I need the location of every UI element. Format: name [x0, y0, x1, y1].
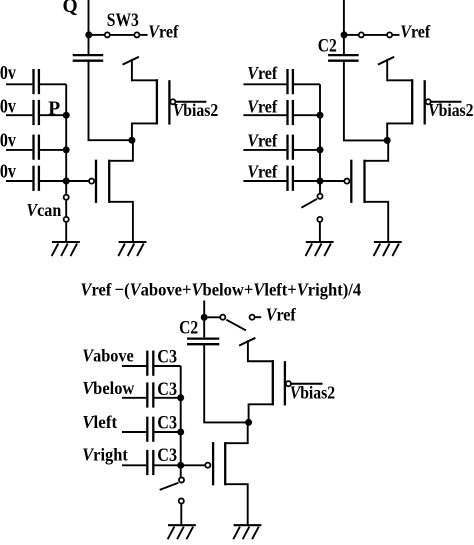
transistor M5 source lever: [239, 338, 255, 346]
switch contact 2 (bottom): [250, 315, 255, 320]
svg-text:Vref: Vref: [247, 161, 277, 181]
wire C3 right to bus: [155, 464, 181, 466]
capacitor C3 (below): [147, 382, 153, 407]
transistor M1 source lever: [123, 57, 139, 65]
switch Vcan contact 1: [64, 195, 69, 200]
capacitor C2 label (bottom): [179, 317, 198, 338]
svg-text:Vref: Vref: [148, 22, 178, 42]
wire Vleft to capacitor C3: [122, 431, 146, 433]
svg-text:Vleft: Vleft: [82, 411, 117, 432]
ground under bottom bus switch: [168, 525, 196, 539]
transistor M3 gate contact circle: [426, 99, 431, 104]
wire Vref input 4 to capacitor: [243, 180, 286, 182]
junction dot bus/cap3 (right): [317, 146, 324, 153]
node dot M3 drain / C2 / M4 drain: [384, 137, 391, 144]
input 0v label 3: [0, 129, 17, 151]
transistor M5 gate bar: [284, 361, 286, 405]
svg-text:C3: C3: [157, 378, 177, 400]
capacitor input 2 (left bank): [34, 100, 39, 125]
transistor M1 body: [132, 79, 157, 141]
input 0v label 2: [0, 95, 17, 117]
wire capacitor 1 to bus corner (right): [294, 83, 320, 85]
switch contact 1 (top right): [359, 32, 364, 37]
switch contact 2 (top right): [387, 32, 392, 37]
switch Vcan contact 2: [64, 217, 69, 222]
svg-text:Vref: Vref: [400, 22, 430, 42]
wire bus to M6 gate: [181, 464, 205, 466]
svg-text:Vref: Vref: [247, 131, 277, 151]
switch contact open top (right bus): [317, 194, 322, 199]
wire C2 node to switch contact: [347, 34, 358, 36]
svg-text:Vref: Vref: [266, 305, 296, 325]
junction dot bus/C3 left: [177, 429, 184, 436]
capacitor C3 (left): [147, 417, 153, 442]
input Vabove label: [82, 346, 134, 366]
wire Vright to capacitor C3: [122, 464, 146, 466]
wire switch closed blade (top right): [365, 34, 387, 36]
switch SW3 label: [107, 9, 139, 30]
input Vref label 1: [247, 63, 277, 83]
capacitor C2 plates (top right): [328, 55, 359, 61]
wire from Q node down to SW3 junction and capacitor: [88, 0, 90, 56]
capacitor input 1 (left bank): [34, 69, 39, 94]
svg-text:P: P: [48, 98, 60, 119]
ground under Vcan switch: [52, 242, 80, 256]
capacitor Vref input 3 (right bank): [288, 135, 293, 160]
switch contact open top (bottom bus): [179, 477, 184, 482]
net Vcan label: [26, 200, 61, 220]
wire switch to Vref (top right): [393, 34, 400, 36]
svg-text:C2: C2: [179, 317, 198, 338]
capacitor C3 (right): [147, 450, 153, 475]
svg-text:Vbias2: Vbias2: [290, 382, 335, 402]
transistor M4 gate bar: [350, 160, 352, 203]
wire capacitor 2 to bus: [40, 114, 66, 116]
wire SW3 closed blade: [111, 34, 134, 36]
svg-text:Vcan: Vcan: [26, 200, 61, 220]
junction dot bus/C3 right: [177, 462, 184, 469]
transistor M1 gate contact circle: [170, 99, 175, 104]
ground under M6: [233, 525, 261, 539]
capacitor C3 label (left): [157, 411, 177, 433]
wire Vabove to capacitor C3: [122, 365, 146, 367]
formula label Vref-(Vabove+Vbelow+Vleft+Vright)/4: [80, 279, 361, 300]
wire capacitor 1 to bus corner: [40, 83, 66, 85]
capacitor C3 label (above): [157, 345, 177, 367]
wire switch to ground (bottom bus): [180, 504, 182, 524]
svg-text:C3: C3: [157, 411, 177, 433]
wire node to open switch contact: [208, 316, 220, 318]
net Vref label (top right): [400, 22, 430, 42]
svg-text:C3: C3: [157, 444, 177, 466]
wire C3 left to bus: [155, 431, 181, 433]
wire input 3 to capacitor: [6, 149, 32, 151]
wire switch stub to Vref (bottom): [255, 316, 261, 318]
node dot M5 drain / C2 / M6 drain (bottom): [245, 419, 252, 426]
transistor M5 body: [248, 360, 273, 423]
junction dot bus/cap2 (node P): [63, 112, 70, 119]
switch contact open bottom (bottom bus): [179, 498, 184, 503]
wire capacitor bottom to drain node: [89, 62, 131, 140]
svg-text:0v: 0v: [0, 129, 17, 151]
junction dot bus/cap4: [63, 178, 70, 185]
capacitor C3 (above): [147, 351, 153, 376]
wire capacitor 2 to bus (right): [294, 114, 320, 116]
junction dot bus/cap2 (right): [317, 112, 324, 119]
input Vref label 2: [247, 97, 277, 117]
svg-text:Vbias2: Vbias2: [428, 100, 473, 120]
wire Vbelow to capacitor C3: [122, 397, 146, 399]
transistor M2 channel bar: [108, 160, 110, 203]
wire M5 source stub: [247, 340, 249, 362]
capacitor Vref input 4 (right bank): [288, 166, 293, 191]
svg-text:0v: 0v: [0, 95, 17, 117]
capacitor C3 label (below): [157, 378, 177, 400]
svg-text:Vright: Vright: [82, 444, 128, 465]
transistor M4 channel bar: [363, 160, 365, 203]
transistor M6 gate bar: [212, 442, 214, 485]
switch open lever (right bus): [301, 199, 317, 208]
transistor M3 source lever: [378, 57, 394, 65]
switch contact open bottom (right bus): [317, 217, 322, 222]
wire input 2 to capacitor: [6, 114, 32, 116]
capacitor C2 plates (bottom): [187, 339, 219, 345]
wire Vref input 3 to capacitor: [243, 149, 286, 151]
svg-text:Q: Q: [63, 0, 78, 17]
svg-text:Vref: Vref: [247, 63, 277, 83]
input Vref label 4: [247, 161, 277, 181]
net Vbias2 label (bottom circuit): [290, 382, 335, 402]
svg-text:C2: C2: [318, 35, 337, 56]
wire formula node down to C2: [203, 301, 205, 338]
wire M2 drain stub: [109, 140, 133, 161]
wire Vref input 1 to capacitor: [243, 83, 286, 85]
transistor M5 gate contact circle: [286, 381, 291, 386]
input 0v label 4: [0, 160, 17, 182]
capacitor input 4 (left bank): [34, 166, 39, 191]
switch open lever (bottom top): [226, 320, 246, 331]
wire summing bus (bottom): [180, 366, 182, 478]
switch contact 1 (bottom): [220, 315, 225, 320]
junction dot at bottom C2 top node: [201, 314, 208, 321]
net Vbias2 label (top left circuit): [173, 100, 218, 120]
wire C2 bottom to drain node (bottom): [204, 345, 246, 422]
svg-text:Vref −(Vabove+Vbelow+Vleft+Vri: Vref −(Vabove+Vbelow+Vleft+Vright)/4: [80, 279, 361, 300]
ground under M2: [118, 242, 146, 256]
transistor M6 gate contact circle: [205, 463, 210, 468]
junction dot bus/C3 below: [177, 394, 184, 401]
wire M1 gate lead: [176, 101, 206, 103]
wire M4 source to ground: [365, 202, 389, 242]
wire bus to M2 gate: [66, 180, 89, 182]
capacitor Vref input 1 (right bank): [288, 69, 293, 94]
wire M6 drain stub: [225, 422, 248, 443]
junction dot bus/cap4 (right): [317, 178, 324, 185]
ground under M4: [374, 242, 402, 256]
wire M3 gate lead: [431, 101, 461, 103]
capacitor Vref input 2 (right bank): [288, 100, 293, 125]
ground under right bus switch: [306, 242, 334, 256]
wire C3 to bus corner (bottom): [155, 365, 181, 367]
switch open lever (bottom bus): [160, 483, 179, 490]
input 0v label 1: [0, 61, 17, 83]
svg-text:C3: C3: [157, 345, 177, 367]
junction dot at C2 top node: [341, 31, 348, 38]
transistor M2 gate contact circle: [89, 179, 94, 184]
wire capacitor 4 to bus: [40, 180, 66, 182]
capacitor input 3 (left bank): [34, 135, 39, 160]
switch SW3 contact 2: [134, 32, 139, 37]
node dot M1 drain / C1 / M2 drain: [128, 137, 135, 144]
wire M1 source stub: [131, 59, 133, 81]
wire Vcan switch to ground: [65, 223, 67, 242]
capacitor C2 label (top right): [318, 35, 337, 56]
wire C3 below to bus: [155, 397, 181, 399]
svg-text:Vref: Vref: [247, 97, 277, 117]
wire M4 drain stub: [365, 140, 389, 160]
net Vref label (top left): [148, 22, 178, 42]
wire summing bus (top-left): [65, 84, 67, 195]
input Vleft label: [82, 411, 117, 432]
wire M3 source stub: [386, 59, 388, 81]
input Vref label 3: [247, 131, 277, 151]
wire SW3 contact to Vref: [140, 34, 148, 36]
input Vright label: [82, 444, 128, 465]
wire capacitor 3 to bus: [40, 149, 66, 151]
wire SW3 node to first contact: [92, 34, 105, 36]
switch SW3 contact 1: [105, 32, 110, 37]
wire Vcan switch closed blade: [65, 201, 67, 217]
node Q label: [63, 0, 78, 17]
svg-text:0v: 0v: [0, 160, 17, 182]
wire M6 source to ground: [225, 484, 248, 524]
wire summing bus (top-right): [319, 84, 321, 194]
wire Vref input 2 to capacitor: [243, 114, 286, 116]
svg-text:Vbias2: Vbias2: [173, 100, 218, 120]
wire M5 gate lead: [292, 383, 323, 385]
net Vbias2 label (top right circuit): [428, 100, 473, 120]
node P label: [48, 98, 60, 119]
wire input 4 to capacitor: [6, 180, 32, 182]
junction dot bus/cap3: [63, 146, 70, 153]
capacitor C1 (unlabeled, top-left): [73, 55, 104, 61]
wire input 1 to capacitor: [6, 83, 32, 85]
wire capacitor 4 to bus (right): [294, 180, 320, 182]
wire switch to ground (right bus): [319, 223, 321, 242]
wire from top to C2 node: [343, 0, 345, 56]
capacitor C3 label (right): [157, 444, 177, 466]
net Vref label (bottom): [266, 305, 296, 325]
wire bus to M4 gate: [320, 180, 344, 182]
wire C2 bottom to drain node: [344, 62, 385, 141]
svg-text:0v: 0v: [0, 61, 17, 83]
svg-text:Vbelow: Vbelow: [82, 377, 135, 398]
wire M2 source to ground: [109, 202, 133, 242]
transistor M1 gate bar: [168, 80, 170, 124]
transistor M4 gate contact circle: [344, 179, 349, 184]
svg-text:SW3: SW3: [107, 9, 139, 30]
input Vbelow label: [82, 377, 135, 398]
transistor M2 gate bar: [95, 160, 97, 203]
transistor M6 channel bar: [224, 442, 226, 485]
transistor M3 body: [387, 79, 412, 141]
transistor M3 gate bar: [424, 80, 426, 124]
svg-text:Vabove: Vabove: [82, 346, 134, 366]
junction dot at Q/SW3 node: [85, 31, 92, 38]
wire capacitor 3 to bus (right): [294, 149, 320, 151]
